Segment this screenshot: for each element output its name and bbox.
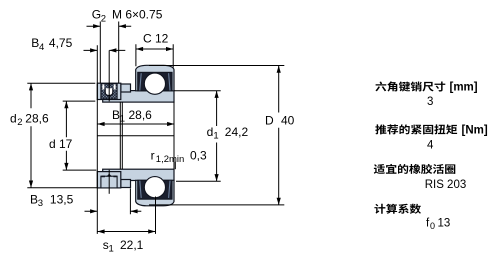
svg-text:[Nm]: [Nm] [462,124,488,136]
locking collar bottom [97,172,121,188]
svg-text:3: 3 [427,96,433,108]
svg-text:D: D [265,114,274,128]
screw axis line bottom [108,170,110,194]
inner ring eccentric step bottom [121,180,131,188]
svg-text:40: 40 [281,114,295,128]
svg-text:r: r [151,149,155,163]
dimension s1 [97,197,155,234]
dimension B4 [84,49,126,51]
svg-text:1,2min: 1,2min [156,154,185,165]
svg-text:RIS 203: RIS 203 [425,179,467,191]
outer ring top [136,65,174,91]
svg-text:1: 1 [109,244,114,255]
seal cavity bottom [138,180,172,199]
svg-text:d: d [207,125,214,139]
grub screw section top (hatched) [101,84,117,99]
svg-text:1: 1 [120,114,125,125]
svg-text:28,6: 28,6 [129,108,153,122]
svg-text:3: 3 [38,198,43,209]
svg-text:4: 4 [427,139,434,151]
seal lips bottom [140,181,170,198]
svg-text:2: 2 [101,13,106,24]
seal cavity top [138,72,172,91]
dimension d1 [174,91,221,182]
property label: tightening torque [Nm] [375,124,457,134]
inner ring eccentric step top [121,84,131,92]
inner ring bottom band [103,169,174,180]
dimension G2 [87,22,132,84]
dimension D [149,66,284,205]
svg-text:13: 13 [438,218,451,230]
outer ring bottom [136,180,174,206]
svg-text:d: d [10,112,17,126]
dimension r12min leader [174,162,176,169]
locking collar top [97,83,121,99]
svg-text:[mm]: [mm] [450,82,478,94]
hex socket of grub screw [105,88,113,95]
svg-text:2: 2 [17,117,22,128]
seal lips top [140,73,170,90]
svg-text:M 6×0.75: M 6×0.75 [112,8,163,22]
svg-text:d 17: d 17 [49,137,73,151]
screw cone point bottom [106,174,112,177]
grub screw elevation bottom [101,176,117,188]
svg-text:G: G [92,8,101,22]
dimension C [136,44,173,67]
thread flank marks [102,84,104,89]
svg-text:1: 1 [213,131,218,142]
collar left face silhouette line [96,45,98,234]
ball bottom [144,177,165,198]
svg-text:0: 0 [430,221,435,231]
screw axis line top [108,50,110,101]
svg-text:24,2: 24,2 [225,125,249,139]
property label: suitable rubber seating ring [374,164,456,174]
dimension d [63,101,97,170]
property label: hex key size [mm] [375,81,445,91]
svg-text:0,3: 0,3 [190,149,207,163]
inner ring right face silhouette [173,102,175,170]
ball top [144,73,165,94]
svg-text:C 12: C 12 [143,32,169,46]
svg-text:4,75: 4,75 [49,36,73,50]
svg-text:13,5: 13,5 [50,193,74,207]
svg-text:28,6: 28,6 [25,112,49,126]
dimension B3 [85,188,142,214]
axis line [97,135,174,137]
svg-text:22,1: 22,1 [120,238,144,252]
inner ring top band [103,91,174,103]
screw corner marks bottom [102,175,117,177]
dimension d2 [27,83,97,188]
dimension B1 [97,123,174,125]
property label: calculation factor [374,204,421,214]
svg-text:4: 4 [39,42,44,53]
collar right face edges in bore region [120,102,122,170]
